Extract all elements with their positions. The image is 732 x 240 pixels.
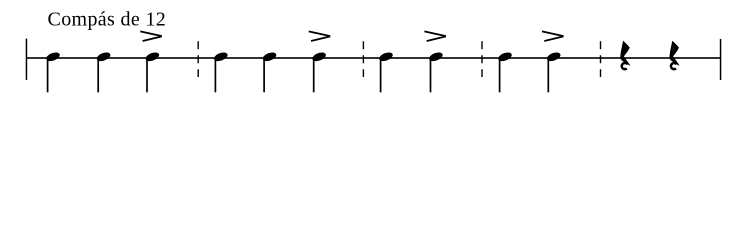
note 7 [378,51,394,93]
note 8 [428,51,444,93]
quarter rest 2 [670,41,680,69]
dashed barline 1 [197,41,199,77]
quarter rest 1 [620,41,630,69]
accent over note 6 [309,31,331,41]
start barline [26,39,28,80]
final barline [720,39,722,80]
note 6 [311,51,327,93]
note 9 [497,51,513,93]
svg-text:Compás de 12: Compás de 12 [48,9,166,31]
accent over note 3 [140,31,162,41]
note 1 [45,51,61,93]
note 4 [213,51,229,93]
dashed barline 4 [600,41,602,77]
note 3 [144,51,160,93]
note 2 [96,51,112,93]
note 5 [262,51,278,93]
accent over note 10 [542,31,564,41]
dashed barline 3 [481,41,483,77]
accent over note 8 [424,31,446,41]
staff line [26,57,721,59]
note 10 [546,51,562,93]
dashed barline 2 [362,41,364,77]
